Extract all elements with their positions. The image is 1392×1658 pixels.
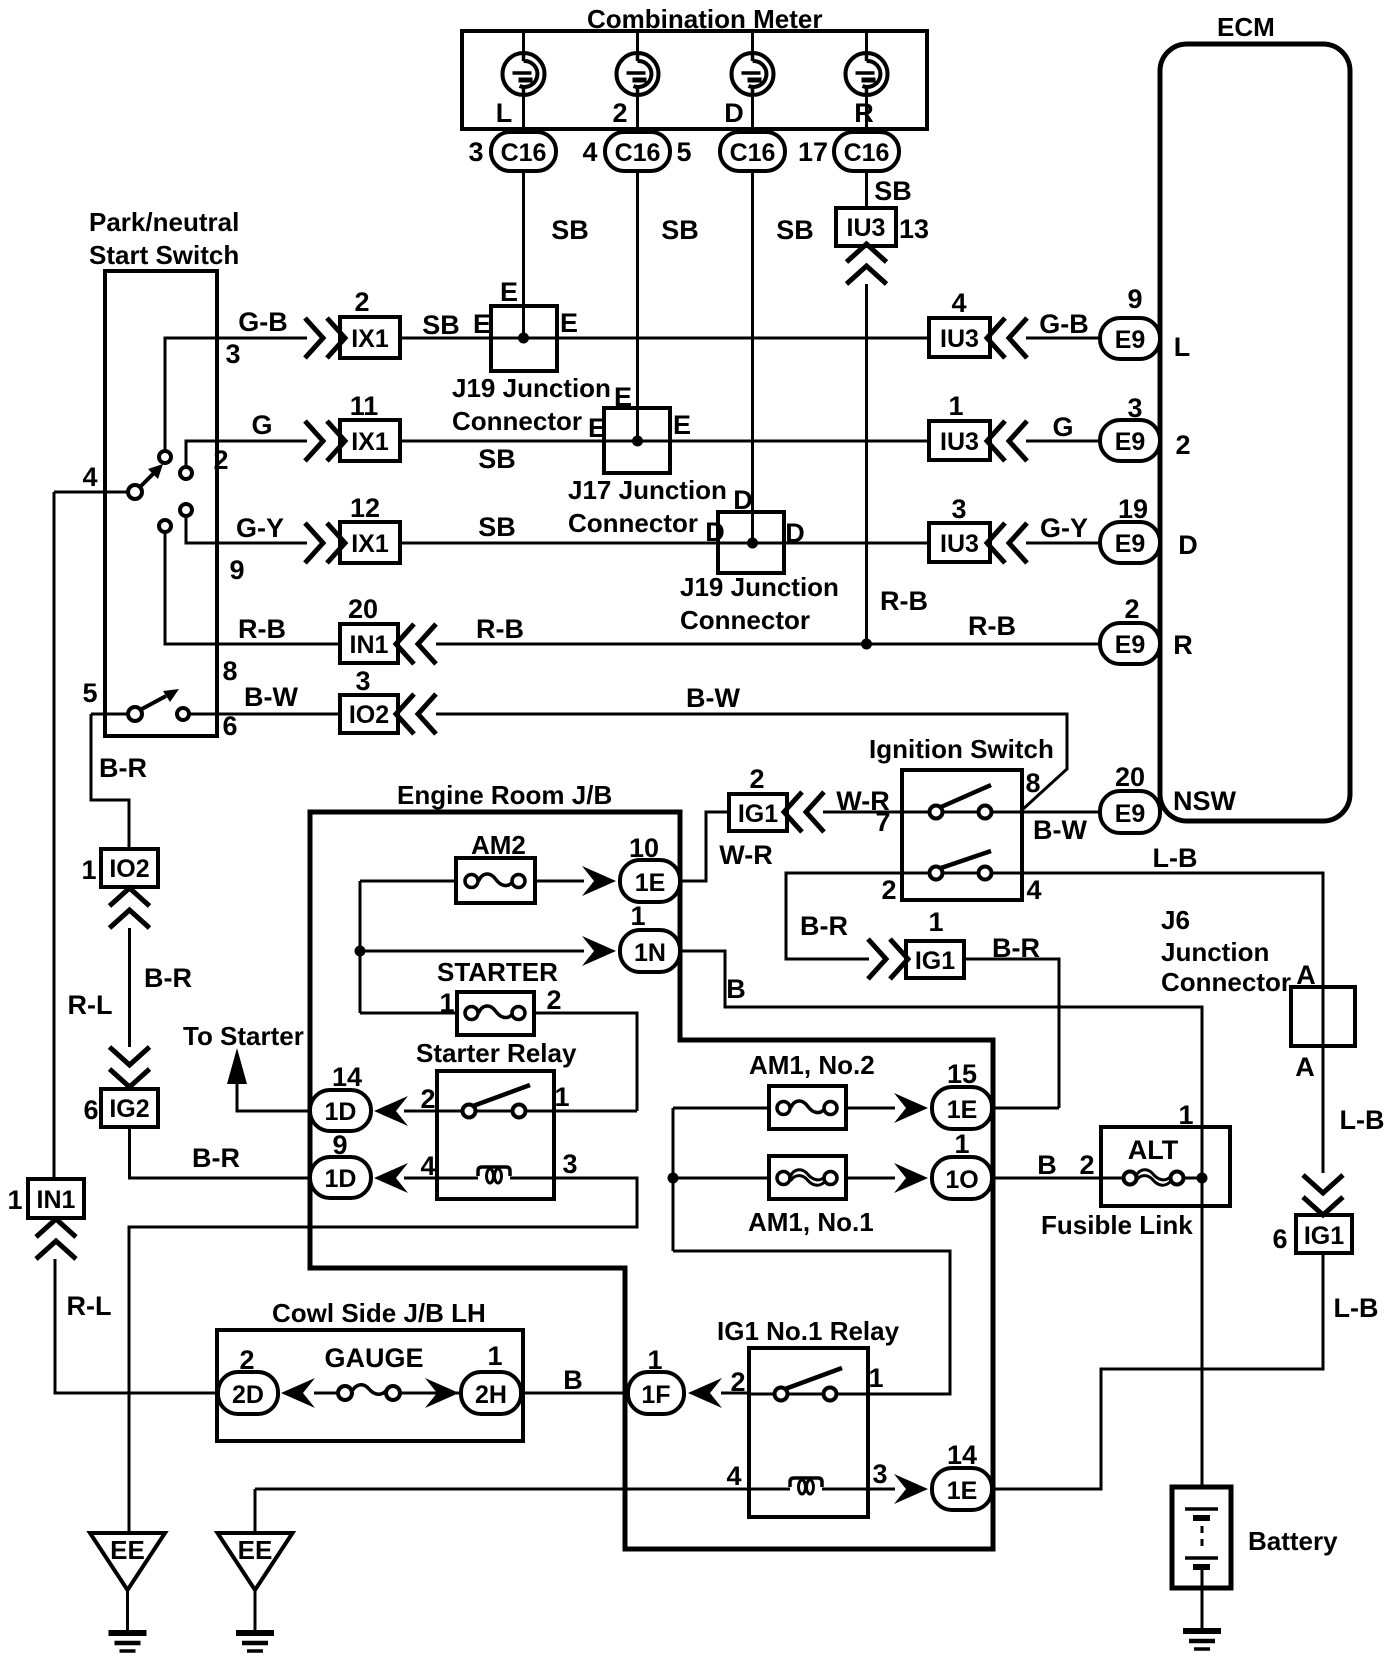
svg-text:E9: E9 — [1115, 631, 1146, 659]
wire 1N B to ALT — [680, 951, 1202, 1487]
svg-text:NSW: NSW — [1173, 786, 1237, 816]
svg-text:1: 1 — [487, 1341, 502, 1371]
fuse GAUGE — [314, 1343, 461, 1400]
wire pin6 B-W — [189, 682, 340, 741]
svg-text:1D: 1D — [325, 1098, 357, 1126]
chevron down above IG1-6 — [1303, 1175, 1343, 1215]
wire G E9-3 — [1026, 412, 1100, 442]
wire pin8 R-B riser — [165, 532, 340, 686]
svg-text:G-Y: G-Y — [236, 513, 284, 543]
svg-text:4: 4 — [726, 1461, 741, 1491]
wire row G-B to IU3 — [400, 310, 929, 340]
ignition switch title — [869, 734, 1054, 764]
svg-text:3: 3 — [468, 137, 483, 167]
arrow into 1O-1 — [894, 1163, 928, 1193]
connector 1F pin 1 — [628, 1345, 684, 1414]
svg-text:Connector: Connector — [568, 508, 698, 538]
chevron left row G right — [987, 421, 1027, 461]
wire IG1 relay contact row — [730, 1363, 883, 1397]
svg-text:3: 3 — [562, 1149, 577, 1179]
svg-text:J6: J6 — [1161, 905, 1190, 935]
wire AM1 feed riser — [668, 1108, 679, 1251]
svg-text:11: 11 — [350, 391, 379, 421]
svg-text:SB: SB — [874, 176, 912, 206]
wire pin5 B-R to IO2-1 — [91, 714, 147, 849]
wire lamp 2 leads — [636, 31, 639, 132]
contact pin3 — [159, 451, 171, 463]
svg-text:1: 1 — [7, 1185, 22, 1215]
svg-text:B: B — [563, 1365, 583, 1395]
svg-text:1: 1 — [868, 1363, 883, 1393]
junction dot R-B column — [861, 639, 872, 650]
IG1 No.1 relay box — [749, 1348, 868, 1517]
lamp 2 — [612, 53, 658, 128]
svg-text:E9: E9 — [1115, 800, 1146, 828]
svg-text:EE: EE — [238, 1535, 273, 1565]
svg-text:Starter Relay: Starter Relay — [416, 1038, 577, 1068]
svg-text:2: 2 — [213, 445, 228, 475]
svg-text:D: D — [724, 98, 744, 128]
svg-text:20: 20 — [348, 594, 378, 624]
svg-text:4: 4 — [951, 288, 966, 318]
wire lamp R leads — [865, 31, 868, 132]
svg-text:1E: 1E — [947, 1477, 978, 1505]
IG1 relay coil — [790, 1478, 822, 1494]
svg-text:B-W: B-W — [244, 682, 298, 712]
arrow before 2H — [425, 1378, 459, 1408]
svg-text:14: 14 — [332, 1062, 362, 1092]
svg-text:B-W: B-W — [1033, 815, 1087, 845]
svg-text:B-R: B-R — [144, 963, 192, 993]
lamp D — [724, 53, 773, 128]
svg-text:E: E — [588, 413, 606, 443]
contact pin2 — [180, 467, 192, 479]
svg-text:C16: C16 — [501, 139, 547, 167]
chevron right row G — [305, 421, 345, 461]
svg-text:SB: SB — [478, 444, 516, 474]
chevron up below IU3-13 — [847, 244, 887, 284]
connector 1D pin 14 — [310, 1062, 371, 1131]
connector C16 pin 4 — [582, 132, 670, 171]
contact pin6 — [177, 708, 189, 720]
svg-text:EE: EE — [110, 1535, 145, 1565]
svg-text:E9: E9 — [1115, 326, 1146, 354]
connector 1D pin 9 — [310, 1130, 371, 1198]
wire pin2 G riser — [186, 410, 307, 475]
ignition switch box — [902, 770, 1022, 900]
wire IG1-6 down to 1E-14 — [992, 1253, 1378, 1489]
connector 2D pin 2 — [218, 1345, 278, 1414]
connector C16 pin 3 — [468, 132, 556, 171]
ground EE right — [218, 1489, 293, 1651]
svg-text:14: 14 — [947, 1440, 977, 1470]
svg-text:C16: C16 — [844, 139, 890, 167]
arrow into 1D-9 — [374, 1163, 408, 1193]
wire IG2 B-R to 1D-9 — [130, 1127, 311, 1178]
arrow into 1N — [582, 936, 616, 966]
svg-text:3: 3 — [872, 1459, 887, 1489]
arrow into 1E-14 — [894, 1474, 928, 1504]
fuse AM2 — [360, 830, 584, 903]
wire IO2-1 to IG2 — [68, 928, 192, 1047]
svg-text:IG1: IG1 — [915, 947, 955, 975]
pivot pin4 — [128, 464, 163, 499]
svg-text:G-B: G-B — [238, 307, 288, 337]
wire row R-B to E9 — [436, 611, 1100, 644]
svg-text:12: 12 — [350, 493, 380, 523]
svg-text:3: 3 — [951, 494, 966, 524]
svg-text:R: R — [1173, 630, 1193, 660]
connector IG2 pin 6 — [83, 1089, 158, 1127]
svg-text:IG1 No.1 Relay: IG1 No.1 Relay — [717, 1316, 900, 1346]
ECM box — [1160, 12, 1350, 821]
svg-text:1: 1 — [928, 907, 943, 937]
svg-text:1: 1 — [439, 988, 454, 1018]
wire IN1-1 R-L to 2D — [55, 1259, 218, 1393]
wire pin4 R-L down to IN1-1 — [53, 492, 56, 1179]
svg-text:R-L: R-L — [68, 990, 113, 1020]
IG1 relay contacts — [775, 1368, 843, 1401]
svg-text:10: 10 — [629, 833, 659, 863]
svg-text:IU3: IU3 — [940, 325, 979, 353]
svg-text:Start Switch: Start Switch — [89, 240, 239, 270]
wire row G-Y to IU3 — [400, 512, 929, 543]
combination meter title — [587, 4, 822, 34]
svg-text:A: A — [1295, 1052, 1315, 1082]
svg-text:R-B: R-B — [476, 614, 524, 644]
wire 1E-15 right riser — [992, 1107, 1059, 1110]
wire row G to IU3 — [400, 441, 929, 474]
svg-text:5: 5 — [82, 678, 97, 708]
connector E9 pin 3 — [1100, 393, 1191, 461]
svg-text:2D: 2D — [232, 1381, 264, 1409]
starter relay box — [437, 1071, 554, 1199]
IG1 No.1 relay title — [717, 1316, 900, 1346]
svg-text:1: 1 — [81, 855, 96, 885]
svg-text:SB: SB — [661, 215, 699, 245]
svg-text:W-R: W-R — [719, 840, 772, 870]
fusible link ALT box — [1041, 1100, 1230, 1240]
wire IG1-2 to ignition pin 7 — [823, 786, 902, 837]
svg-text:D: D — [1178, 530, 1198, 560]
wire SB from C16-5 — [753, 171, 814, 543]
connector IG1 pin 2 — [729, 764, 787, 831]
svg-text:R: R — [854, 98, 874, 128]
svg-text:2: 2 — [239, 1345, 254, 1375]
svg-text:1E: 1E — [947, 1096, 978, 1124]
svg-text:Connector: Connector — [452, 406, 582, 436]
svg-text:B-W: B-W — [686, 683, 740, 713]
svg-text:Cowl Side J/B LH: Cowl Side J/B LH — [272, 1298, 486, 1328]
arrow after 1F — [688, 1378, 722, 1408]
arrow into 1E-10 — [582, 866, 616, 896]
wire SB from C16-17 — [867, 171, 912, 208]
svg-text:IU3: IU3 — [940, 530, 979, 558]
svg-text:J19 Junction: J19 Junction — [680, 572, 839, 602]
svg-text:ECM: ECM — [1217, 12, 1275, 42]
svg-text:Ignition Switch: Ignition Switch — [869, 734, 1054, 764]
connector IX1 pin 2 — [340, 287, 400, 358]
svg-text:D: D — [705, 517, 725, 547]
contact R-B — [159, 520, 171, 532]
chevron down above IG2 — [110, 1047, 150, 1087]
ground battery — [1183, 1631, 1221, 1649]
wire R-B vertical from IU3-13 to R-B row — [867, 284, 929, 644]
svg-text:ALT: ALT — [1128, 1135, 1179, 1165]
connector 2H pin 1 — [461, 1341, 521, 1414]
contact G-Y — [180, 504, 192, 516]
wire lamp L leads — [522, 31, 525, 132]
cowl side J/B box — [217, 1330, 523, 1441]
svg-text:Engine Room J/B: Engine Room J/B — [397, 780, 612, 810]
park/neutral start switch box — [105, 271, 217, 736]
ignition pole2 contacts — [930, 851, 992, 880]
svg-text:IG1: IG1 — [738, 800, 778, 828]
svg-text:3: 3 — [355, 666, 370, 696]
svg-text:1N: 1N — [634, 939, 666, 967]
connector IN1 pin 1 — [7, 1179, 84, 1218]
svg-text:IX1: IX1 — [351, 530, 389, 558]
chevron left row B-W — [396, 694, 436, 734]
svg-text:IU3: IU3 — [940, 428, 979, 456]
svg-text:B-R: B-R — [99, 753, 147, 783]
wire IG1 relay coil row — [255, 1459, 895, 1491]
svg-text:6: 6 — [1272, 1224, 1287, 1254]
svg-text:G-B: G-B — [1039, 309, 1089, 339]
starter relay title — [416, 1038, 577, 1068]
connector 1N pin 1 — [620, 901, 680, 972]
svg-text:15: 15 — [947, 1059, 977, 1089]
svg-text:R-L: R-L — [67, 1291, 112, 1321]
svg-text:4: 4 — [420, 1151, 435, 1181]
svg-text:E9: E9 — [1115, 428, 1146, 456]
svg-text:SB: SB — [551, 215, 589, 245]
svg-text:J19 Junction: J19 Junction — [452, 373, 611, 403]
wire SB from C16-4 — [638, 171, 699, 441]
svg-text:2: 2 — [1079, 1150, 1094, 1180]
svg-text:E9: E9 — [1115, 530, 1146, 558]
connector IN1 pin 20 — [340, 594, 398, 663]
chevron right row G-B — [305, 318, 345, 358]
svg-text:E: E — [560, 308, 578, 338]
svg-text:IN1: IN1 — [350, 631, 389, 659]
svg-text:SB: SB — [422, 310, 460, 340]
svg-text:1: 1 — [630, 901, 645, 931]
fuse AM1 No.1 — [673, 1156, 895, 1237]
wire G-Y E9-19 — [1026, 513, 1100, 543]
svg-text:8: 8 — [222, 656, 237, 686]
svg-text:IO2: IO2 — [349, 701, 389, 729]
wire battery to ground — [1201, 1567, 1204, 1629]
battery — [1172, 1487, 1338, 1588]
svg-text:SB: SB — [776, 215, 814, 245]
svg-text:L-B: L-B — [1153, 843, 1198, 873]
wire 1F to IG1 relay — [721, 1392, 749, 1395]
svg-text:9: 9 — [229, 555, 244, 585]
svg-text:L: L — [1174, 332, 1191, 362]
svg-text:D: D — [785, 518, 805, 548]
wire 1E-10 riser to IG1-2 — [680, 812, 773, 881]
svg-text:B-R: B-R — [192, 1143, 240, 1173]
svg-text:Connector: Connector — [680, 605, 810, 635]
svg-text:2: 2 — [612, 98, 627, 128]
wire pin9 G-Y riser — [186, 513, 307, 585]
svg-text:9: 9 — [1127, 284, 1142, 314]
connector 1E pin 14 — [932, 1440, 992, 1510]
arrow into 1E-15 — [894, 1093, 928, 1123]
wire starter relay coil row — [129, 1149, 637, 1533]
connector IG1 pin 1 — [906, 907, 964, 978]
connector IO2 pin 3 — [340, 666, 398, 733]
fuse STARTER — [360, 957, 637, 1111]
wire ignition pole2 L-B — [881, 843, 1323, 1173]
wire L-B label mid — [1340, 1105, 1385, 1135]
wire pin4 from left — [54, 462, 128, 492]
svg-text:E: E — [473, 309, 491, 339]
wire starter relay contact row — [404, 1082, 637, 1114]
chevron up below IO2-1 — [110, 888, 150, 928]
battery plates — [1185, 1509, 1218, 1567]
svg-text:8: 8 — [1025, 768, 1040, 798]
svg-text:5: 5 — [676, 137, 691, 167]
connector IX1 pin 12 — [340, 493, 400, 563]
svg-text:E: E — [614, 382, 632, 412]
svg-text:C16: C16 — [615, 139, 661, 167]
svg-text:B-R: B-R — [800, 911, 848, 941]
chevron left row G-B right — [987, 318, 1027, 358]
junction connector J17 — [568, 382, 727, 538]
lamp R — [846, 53, 888, 128]
svg-text:E: E — [500, 277, 518, 307]
svg-text:2: 2 — [881, 875, 896, 905]
svg-text:4: 4 — [582, 137, 597, 167]
svg-text:C16: C16 — [730, 139, 776, 167]
svg-text:20: 20 — [1115, 762, 1145, 792]
fuse AM1 No.2 — [673, 1050, 895, 1129]
connector IU3 pin 3 — [929, 494, 990, 562]
wire G-B E9-9 — [1026, 309, 1100, 339]
chevron up below IN1-1 — [36, 1219, 76, 1259]
svg-text:E: E — [673, 410, 691, 440]
svg-text:J17 Junction: J17 Junction — [568, 475, 727, 505]
svg-text:1: 1 — [554, 1082, 569, 1112]
svg-text:9: 9 — [332, 1130, 347, 1160]
svg-text:L: L — [496, 98, 513, 128]
svg-text:2: 2 — [730, 1367, 745, 1397]
svg-text:G: G — [251, 410, 272, 440]
junction connector J19 lower — [680, 485, 839, 635]
svg-text:1D: 1D — [325, 1165, 357, 1193]
combination meter box — [462, 31, 927, 129]
connector C16 pin 17 — [798, 132, 899, 171]
connector IG1 pin 6 — [1272, 1215, 1352, 1254]
svg-text:6: 6 — [83, 1095, 98, 1125]
svg-text:L-B: L-B — [1334, 1293, 1379, 1323]
svg-text:G: G — [1052, 412, 1073, 442]
svg-text:GAUGE: GAUGE — [324, 1343, 423, 1373]
connector IO2 pin 1 — [81, 849, 158, 887]
svg-text:B: B — [1037, 1150, 1057, 1180]
park/neutral start switch title — [89, 207, 239, 270]
connector C16 pin 5 — [676, 132, 785, 171]
svg-text:2: 2 — [420, 1084, 435, 1114]
svg-text:IG1: IG1 — [1304, 1222, 1344, 1250]
svg-text:R-B: R-B — [880, 586, 928, 616]
starter relay contacts — [463, 1085, 531, 1118]
svg-text:1: 1 — [954, 1129, 969, 1159]
svg-text:3: 3 — [1127, 393, 1142, 423]
svg-text:1O: 1O — [945, 1166, 978, 1194]
svg-text:19: 19 — [1118, 494, 1148, 524]
wire 2H B to 1F — [521, 1365, 628, 1395]
chevron left row R-B — [396, 624, 436, 664]
svg-text:Park/neutral: Park/neutral — [89, 207, 239, 237]
svg-text:2: 2 — [1175, 430, 1190, 460]
J6 junction connector label — [1161, 905, 1316, 997]
svg-text:1: 1 — [948, 391, 963, 421]
wire SB from C16-3 — [524, 171, 589, 338]
svg-text:STARTER: STARTER — [437, 957, 558, 987]
svg-text:Battery: Battery — [1248, 1526, 1338, 1556]
svg-text:G-Y: G-Y — [1040, 513, 1088, 543]
wire IG1-1 B-R down to 1E-15 — [964, 933, 1059, 1108]
svg-text:IX1: IX1 — [351, 428, 389, 456]
connector IX1 pin 11 — [340, 391, 400, 461]
svg-text:2: 2 — [749, 764, 764, 794]
svg-text:6: 6 — [222, 711, 237, 741]
svg-text:IU3: IU3 — [847, 214, 886, 242]
svg-text:2H: 2H — [475, 1381, 507, 1409]
svg-text:Connector: Connector — [1161, 967, 1291, 997]
lamp L — [496, 53, 545, 128]
svg-text:D: D — [733, 485, 753, 515]
svg-text:1E: 1E — [635, 869, 666, 897]
arrow into 1D-14 — [374, 1096, 408, 1126]
svg-text:7: 7 — [875, 807, 890, 837]
wire row B-W long — [436, 683, 1067, 810]
svg-text:4: 4 — [1026, 875, 1041, 905]
connector E9 pin 2 — [1100, 594, 1193, 664]
wire lamp D leads — [751, 31, 754, 132]
connector 1E pin 10 — [620, 833, 680, 902]
junction connector J6 box — [1291, 987, 1355, 1082]
engine room J/B box — [310, 780, 993, 1549]
svg-text:B-R: B-R — [992, 933, 1040, 963]
svg-text:IG2: IG2 — [109, 1095, 149, 1123]
svg-text:B: B — [726, 974, 746, 1004]
wire AM2 riser and 1N feed — [355, 881, 585, 1013]
svg-text:3: 3 — [225, 339, 240, 369]
chevron left after IG1-2 — [784, 792, 824, 832]
svg-text:SB: SB — [478, 512, 516, 542]
arrow after 2D — [281, 1378, 315, 1408]
svg-text:IO2: IO2 — [109, 855, 149, 883]
connector IU3 pin 1 — [929, 391, 990, 460]
chevron right row G-Y — [305, 523, 345, 563]
svg-text:Fusible Link: Fusible Link — [1041, 1210, 1193, 1240]
svg-text:IX1: IX1 — [351, 325, 389, 353]
starter relay coil — [478, 1167, 510, 1183]
svg-text:IN1: IN1 — [37, 1186, 76, 1214]
connector 1O pin 1 — [932, 1129, 992, 1199]
connector IU3 pin 13 — [836, 208, 929, 246]
wire ignition pole1 — [902, 811, 1100, 814]
svg-text:AM1, No.1: AM1, No.1 — [748, 1207, 874, 1237]
svg-text:Junction: Junction — [1161, 937, 1269, 967]
svg-text:17: 17 — [798, 137, 828, 167]
connector IU3 pin 4 — [929, 288, 990, 357]
wire pin5 from left — [82, 678, 128, 714]
